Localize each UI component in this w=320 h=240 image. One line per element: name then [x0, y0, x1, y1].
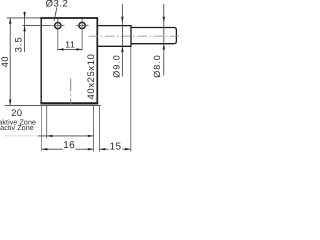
extension line top (body top level) — [7, 17, 41, 19]
bottom extension line (body bottom level) — [5, 104, 101, 106]
dimension 16 line segments (text inline) — [42, 148, 63, 150]
dimension 15 extension right (below step) — [130, 47, 132, 152]
dim 16 arrow right — [88, 148, 94, 150]
arrow up to barrel bottom — [163, 44, 165, 50]
hole 1 crosshair — [51, 19, 64, 51]
dim 15 arrow left — [100, 148, 106, 150]
dimension 15 extension left — [99, 106, 101, 152]
active zone dimension line faint tail — [4, 135, 38, 137]
step face — [130, 25, 132, 47]
center line (axis, dash-dot) — [89, 35, 180, 37]
active zone arrow right — [88, 135, 94, 137]
arrow down — [9, 100, 11, 106]
arrow up to barrel bottom — [121, 46, 123, 52]
body left edge extension (below) — [41, 106, 43, 151]
dim 15 arrow right — [125, 148, 131, 150]
barrel section 1 (Ø9) — [97, 25, 131, 47]
dimension 40 line — [9, 18, 11, 106]
svg-text:3.5: 3.5 — [13, 36, 24, 52]
active zone dimension extension left — [46, 106, 48, 138]
body outline (rectangular housing 40x25x10) — [40, 17, 98, 104]
svg-text:activ Zone: activ Zone — [0, 123, 34, 132]
arrow left — [58, 48, 64, 50]
active zone arrow left — [47, 135, 53, 137]
leader line to hole 1 — [54, 7, 57, 20]
active zone dimension line — [38, 135, 94, 137]
dim 16 arrow left — [42, 148, 48, 150]
svg-text:40x25x10: 40x25x10 — [86, 53, 97, 99]
dimension 3.5 line — [24, 11, 26, 52]
svg-text:40: 40 — [0, 56, 11, 67]
dimension 11 (hole spacing) line — [58, 48, 82, 50]
dimension Ø9.0 line — [121, 4, 123, 77]
active zone dimension extension right — [93, 106, 95, 152]
body vertical centerline (dash-dot) — [70, 79, 72, 107]
dimension 15 line segments (text inline) — [100, 148, 109, 150]
svg-text:15: 15 — [110, 142, 122, 153]
svg-text:Ø8.0: Ø8.0 — [152, 54, 162, 78]
svg-text:11: 11 — [65, 39, 75, 49]
svg-text:Ø9.0: Ø9.0 — [112, 54, 122, 78]
arrow up — [9, 18, 11, 24]
dimension Ø8.0 line — [163, 4, 165, 76]
extension line at hole axis level — [22, 25, 50, 27]
mounting hole 1 — [55, 22, 61, 28]
arrow down to barrel top — [121, 17, 123, 23]
arrow down to top line — [23, 12, 25, 18]
svg-text:16: 16 — [63, 140, 75, 151]
arrow right — [76, 48, 82, 50]
barrel section 2 (Ø8) with rounded end — [131, 28, 176, 44]
arrow down to barrel top — [163, 17, 165, 23]
hole 2 crosshair — [76, 19, 89, 51]
mounting hole 2 — [79, 22, 85, 28]
arrow up to axis line — [23, 26, 25, 32]
